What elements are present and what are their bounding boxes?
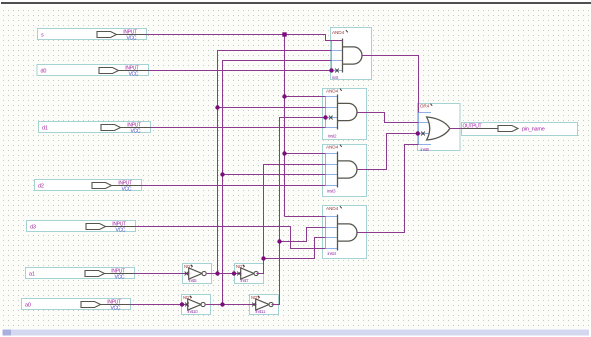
- svg-text:s: s: [41, 32, 44, 38]
- svg-text:VCC: VCC: [122, 187, 132, 193]
- input pin d1: [39, 122, 151, 135]
- node NOT-A input connection: [185, 272, 189, 276]
- svg-text:inst: inst: [332, 75, 339, 80]
- svg-text:a1: a1: [29, 271, 35, 277]
- node V1-AND2 junction: [282, 94, 286, 98]
- svg-text:VCC: VCC: [111, 306, 121, 312]
- svg-text:VCC: VCC: [115, 275, 125, 281]
- input pin d3: [27, 221, 136, 234]
- wire V4 branch to AND4 in2: [280, 228, 326, 242]
- svg-text:NOT: NOT: [251, 295, 260, 300]
- svg-text:VCC: VCC: [127, 36, 137, 42]
- wire V3 a0-inverted vertical: [223, 61, 332, 305]
- inverter inst7 (NOT B): [235, 264, 264, 284]
- node V1-AND3 junction: [282, 151, 286, 155]
- node V4 branch junction: [277, 239, 281, 243]
- node V3-AND3 junction: [220, 172, 224, 176]
- svg-text:NOT: NOT: [184, 264, 193, 269]
- inverter inst10 (NOT C): [182, 295, 211, 315]
- node NOT-C input connection: [180, 302, 189, 306]
- wire V1 branch to AND2 in1: [285, 96, 326, 98]
- wire OR-out to output pin: [450, 128, 462, 130]
- svg-text:VCC: VCC: [116, 228, 126, 234]
- and-gate inst4 (AND4): [323, 206, 367, 259]
- svg-text:inst6: inst6: [421, 147, 430, 152]
- wire d0 to AND1 in4: [149, 70, 332, 72]
- svg-text:inst11: inst11: [256, 309, 266, 314]
- and-gate inst2 (AND4): [323, 89, 367, 140]
- svg-text:AND4: AND4: [326, 145, 339, 150]
- and-gate inst (AND4): [331, 28, 372, 81]
- wire d1 to AND2 in4: [151, 127, 326, 129]
- input pin d0: [37, 65, 149, 78]
- node V4-AND2 pin connection: [323, 115, 332, 119]
- svg-text:OUTPUT: OUTPUT: [463, 124, 482, 130]
- node NOT-B input connection: [232, 271, 241, 275]
- output pin pin_name: [462, 123, 578, 136]
- svg-text:d2: d2: [38, 183, 44, 189]
- svg-text:pin_name: pin_name: [522, 127, 545, 133]
- svg-text:inst10: inst10: [188, 309, 199, 314]
- and-gate inst3 (AND4): [323, 145, 367, 197]
- svg-text:d3: d3: [30, 224, 36, 230]
- svg-text:a0: a0: [25, 302, 31, 308]
- node V2 tap on a1n: [215, 271, 219, 275]
- wire a0 to NOT-C input: [131, 304, 189, 306]
- svg-text:VCC: VCC: [129, 72, 139, 78]
- wire AND4-out to OR in4: [357, 145, 419, 233]
- wire V1 branch to AND4 in1: [285, 216, 326, 218]
- input pin a0: [22, 299, 131, 312]
- svg-text:NOT: NOT: [236, 264, 245, 269]
- svg-text:inst7: inst7: [241, 278, 250, 283]
- svg-text:AND4: AND4: [326, 89, 339, 94]
- wire NOT-C out to NOT-D input: [205, 304, 256, 306]
- input pin s: [38, 29, 147, 42]
- svg-text:OR4: OR4: [420, 103, 430, 108]
- wire a1 to NOT-A input: [135, 273, 190, 275]
- wire V3 branch to AND3 in3: [223, 174, 326, 176]
- wire d2 to AND3 in4: [142, 185, 326, 187]
- wire V2 branch to AND2 in2: [218, 107, 326, 109]
- wire AND2-out to OR in2: [357, 113, 419, 123]
- wire s to AND1 in1: [147, 35, 343, 41]
- wire V5 NOT-B out to AND3 in2: [256, 165, 325, 274]
- wire AND3-out to OR in3: [357, 134, 418, 170]
- wire AND1-out to OR in1: [362, 56, 419, 113]
- node AND3-OR pin connection: [416, 131, 425, 135]
- wire V1 branch to AND3 in1: [285, 153, 326, 155]
- node NOT-D input connection: [252, 303, 256, 307]
- svg-text:inst2: inst2: [328, 134, 337, 139]
- wire V2 a1-inverted vertical: [218, 51, 332, 274]
- inverter inst11 (NOT D): [250, 295, 279, 315]
- svg-text:AND4: AND4: [332, 30, 345, 35]
- node V5 branch junction: [261, 256, 265, 260]
- inverter inst5 (NOT A): [183, 264, 212, 284]
- wire V1 s-feed vertical: [284, 35, 286, 217]
- node V3 tap on a0n: [220, 302, 224, 306]
- wire d3 to AND4 in4: [136, 227, 326, 249]
- svg-text:d1: d1: [42, 125, 48, 131]
- svg-text:AND4: AND4: [326, 206, 339, 211]
- node s-V1 junction square: [282, 32, 286, 36]
- svg-text:d0: d0: [41, 68, 47, 74]
- input pin d2: [35, 180, 142, 193]
- svg-text:inst3: inst3: [327, 189, 336, 194]
- wire V5 branch to AND4 in3: [264, 238, 326, 259]
- node d0-AND1 pin connection: [329, 68, 339, 72]
- svg-text:inst5: inst5: [189, 278, 198, 283]
- wire V4 NOT-D out to AND2 in3: [272, 118, 326, 305]
- or-gate inst6 (OR4): [418, 103, 461, 152]
- svg-text:VCC: VCC: [131, 129, 141, 135]
- input pin a1: [26, 268, 135, 281]
- wire NOT-A out to NOT-B input: [206, 273, 241, 275]
- svg-text:inst4: inst4: [328, 251, 337, 256]
- node V2-AND2 junction: [215, 105, 219, 109]
- svg-text:NOT: NOT: [183, 295, 192, 300]
